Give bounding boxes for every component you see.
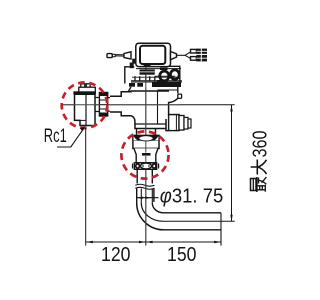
left mount bracket [125, 67, 135, 84]
phi arrow left [137, 197, 143, 199]
solenoid unit outer case [136, 43, 171, 66]
outlet end [188, 119, 191, 128]
horizontal pipe mid [164, 220, 235, 222]
left plug [107, 54, 112, 58]
bonnet right side [177, 87, 179, 93]
inlet stop valve top bump [81, 84, 90, 87]
svg-text:φ31. 75: φ31. 75 [160, 185, 224, 207]
outlet step 3 [184, 117, 188, 129]
union top corner facets [134, 136, 138, 140]
elbow inner arc [152, 203, 163, 213]
plate bottom link line [155, 75, 175, 77]
bottom dimension line [86, 241, 221, 243]
flange lines [132, 76, 180, 78]
Rc1 leader [57, 128, 84, 147]
inlet block divider [85, 94, 87, 125]
inlet union nut [99, 93, 107, 117]
outlet interior line [175, 115, 177, 130]
inlet body block [75, 94, 96, 125]
outlet mid step [179, 116, 184, 131]
right cable boot [171, 52, 177, 60]
right dim arrow up [230, 105, 232, 112]
svg-text:Rc1: Rc1 [44, 126, 67, 147]
left plug stem [112, 54, 115, 56]
horizontal pipe bottom [164, 229, 222, 231]
nut stripes [99, 100, 107, 109]
right wire [177, 54, 186, 56]
outlet big step [169, 115, 179, 131]
left cable boot [124, 52, 131, 59]
svg-text:360: 360 [250, 131, 272, 158]
connector block lower [196, 55, 207, 62]
elbow second arc [141, 203, 163, 221]
connector block notches [200, 49, 202, 62]
phi dimension leader [137, 197, 159, 199]
union top nut [133, 135, 159, 148]
union bottom right ring [152, 163, 157, 169]
body top right step [158, 89, 178, 91]
coil ring right [170, 70, 179, 79]
union bottom middle ellipse [140, 163, 151, 169]
union bottom left ring [135, 163, 140, 169]
legs verticals [135, 76, 155, 81]
clip bits below [157, 80, 163, 83]
pipe upper section [137, 169, 152, 183]
elbow outer arc [137, 203, 164, 230]
pipe lower section outer walls [137, 189, 154, 204]
connector block upper [196, 49, 207, 55]
solenoid base bolts [144, 64, 151, 67]
horizontal pipe top [164, 212, 222, 214]
nut to body stub [108, 98, 110, 112]
inlet cap [79, 87, 96, 93]
coil ring left [160, 71, 169, 81]
bottom dim arrow far left [86, 241, 93, 243]
centerline horizontal [62, 104, 181, 106]
nut top band [99, 93, 107, 97]
valve body outline [110, 91, 179, 131]
right wire split V [185, 51, 192, 59]
right vertical dimension line [231, 105, 233, 222]
red callout circle inlet [62, 82, 108, 128]
left bracket bolt block [130, 63, 134, 69]
union center bar [142, 153, 151, 156]
Rc1 arrow [80, 126, 85, 131]
centerline vertical overlay segments [145, 75, 147, 246]
extension line left (Rc1 fitting to dim) [85, 128, 87, 246]
bonnet left side [129, 87, 132, 91]
kanji sai (most) [251, 177, 267, 192]
union bottom side tabs [133, 164, 159, 169]
connector nose upper [191, 49, 197, 53]
union bottom nut [134, 163, 156, 170]
mounting plate dark band [140, 70, 155, 75]
flange dark band right [152, 83, 181, 88]
body bottom edge [135, 123, 166, 125]
body interior line [157, 91, 159, 124]
centerline horizontal overlay [62, 104, 181, 106]
inlet cap dark band [73, 91, 96, 94]
union top nut dark band [133, 135, 159, 140]
union taper body [134, 148, 158, 162]
bonnet ear [178, 94, 182, 98]
max360 label rotated [250, 131, 272, 193]
plate top edge line [136, 68, 181, 70]
right mount bracket [169, 66, 180, 87]
body tail to union [137, 129, 156, 136]
bottom dim arrows middle [139, 241, 146, 243]
kanji dai (big) [251, 160, 267, 175]
right dim arrow down [230, 215, 232, 222]
inlet stem [95, 98, 99, 112]
connector nose lower [191, 57, 197, 61]
pipe break waves [135, 184, 154, 189]
flange dark band left [129, 83, 135, 87]
nut bottom band [99, 113, 107, 117]
phi arrow right [145, 197, 151, 199]
solenoid unit inner cover [140, 46, 165, 64]
svg-text:120: 120 [101, 244, 131, 266]
union top facet ellipse [139, 136, 154, 141]
centerline vertical [145, 66, 147, 246]
bottom dim arrow far right [214, 241, 221, 243]
pipe lower section inner walls [141, 189, 152, 204]
pipe end cap / right extension [220, 213, 222, 246]
corner block lower-left of case [132, 59, 135, 64]
coil top piece [160, 68, 168, 70]
red callout circle union [121, 131, 168, 178]
svg-text:150: 150 [167, 244, 197, 266]
left cable wires [115, 54, 124, 56]
right dim top extension [181, 104, 235, 106]
